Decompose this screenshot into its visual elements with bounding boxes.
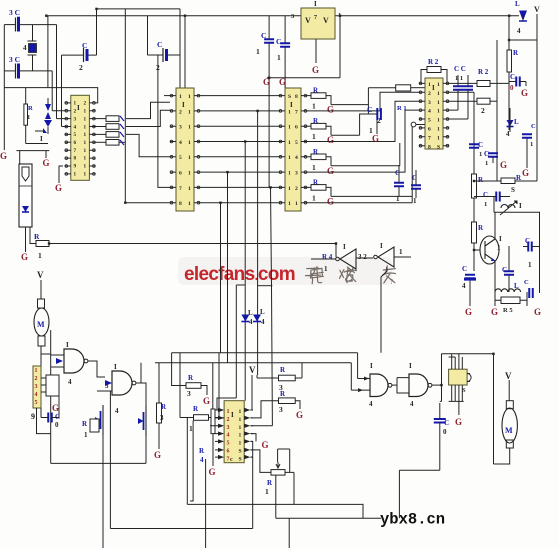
svg-text:4: 4 (200, 456, 204, 464)
diode D1 (519, 11, 527, 22)
ground G below C10 (279, 77, 286, 87)
resistor R22 label (280, 390, 286, 398)
wire R22 to ground (326, 126, 331, 135)
relay U14 value (462, 387, 466, 394)
ground G of R23 (327, 166, 334, 176)
svg-text:G: G (209, 467, 216, 477)
IC U12 designator (231, 411, 234, 419)
wire C22 leads (41, 396, 59, 418)
resistor row blue marks (120, 116, 124, 145)
wire crystal leads (32, 25, 34, 71)
resistor R22 value (279, 405, 283, 414)
inductor L1 (495, 289, 521, 292)
wire top bus right segment (335, 15, 519, 17)
capacitor C8 (411, 185, 421, 189)
capacitor C5 (163, 48, 168, 62)
svg-text:1: 1 (312, 163, 316, 172)
wire IC4 row3 to R11 (449, 100, 477, 102)
capacitor C4 (16, 64, 21, 79)
wire C16 stem (492, 157, 494, 163)
capacitor C10 label (276, 37, 281, 46)
wire IC3 to R22 (307, 125, 311, 127)
svg-text:R 2: R 2 (478, 68, 489, 76)
capacitor C22 value (55, 421, 59, 429)
IC U2 body (176, 88, 194, 211)
IC U6 right pin numbers (437, 82, 440, 150)
regulator text V (323, 16, 329, 25)
svg-text:1: 1 (479, 151, 482, 158)
svg-text:1: 1 (528, 261, 532, 269)
wire IC1 to R13 (95, 126, 106, 128)
motor M1 label (37, 320, 45, 329)
wire x97 top (97, 8, 181, 10)
svg-text:G: G (327, 135, 334, 145)
wire C18 leads (523, 246, 540, 248)
wire M1 to x50 (41, 353, 51, 355)
wire C9 vertical (268, 16, 270, 188)
IC U3 body (285, 88, 301, 211)
svg-text:I: I (314, 0, 317, 8)
resistor R22 value (312, 132, 316, 141)
ground G below IC1 left (55, 183, 62, 193)
resistor R8 label (397, 105, 407, 112)
svg-text:1234567: 1234567 (227, 409, 230, 462)
capacitor C13 label (510, 73, 515, 81)
capacitor C22 label (55, 413, 60, 421)
svg-text:C: C (82, 41, 87, 50)
wire bus IC2-IC3 y126 (200, 125, 279, 127)
wire bus y463 (51, 462, 146, 464)
wire bus IC2-IC3 y95 (200, 95, 279, 97)
buffer U7 refdes (322, 253, 333, 261)
svg-text:L: L (248, 309, 253, 317)
capacitor C12 (463, 86, 473, 90)
wire C6 left lead (368, 113, 376, 115)
wire M1 top (40, 280, 42, 299)
svg-text:1: 1 (485, 160, 488, 167)
wire IC3 to R23 (307, 156, 311, 158)
capacitor C11 C12 values (455, 75, 463, 82)
svg-text:G: G (465, 307, 472, 317)
wire IC3 row8 right (307, 202, 412, 204)
IC U6 designator (432, 84, 435, 92)
wire top bus left segment (46, 15, 301, 17)
ground G below crystal net (43, 158, 50, 168)
svg-text:I: I (182, 101, 185, 109)
ground G of R20 (209, 467, 216, 477)
diode D3 (241, 315, 249, 322)
capacitor C15 value (479, 151, 482, 158)
wire M2 top (508, 380, 510, 401)
wire U11A inputs (51, 355, 64, 367)
svg-text:R 4: R 4 (322, 253, 333, 261)
svg-text:C: C (462, 265, 467, 273)
transistor Q2 label (499, 235, 502, 243)
buffer U8 label I (380, 242, 383, 250)
wire bus IC2-IC3 y202 (200, 202, 279, 204)
IC U1 left pin numbers (74, 101, 77, 178)
wire v540 right edge (539, 212, 541, 293)
wire U13B output (432, 384, 442, 386)
wire IC1 to R12 (95, 118, 106, 120)
svg-text:I: I (499, 235, 502, 243)
svg-text:G: G (521, 88, 528, 98)
wire U11B output (136, 383, 146, 406)
wire ground bus under regulator (267, 77, 340, 79)
resistor R13 (106, 124, 119, 130)
NAND U11B input label (105, 382, 109, 390)
wire v289 bottom (288, 518, 290, 548)
resistor R12 (106, 116, 119, 122)
wire ext row1 (331, 104, 368, 106)
wire R22 to ground (295, 401, 300, 409)
resistor R16 label (503, 307, 513, 314)
wire bus y362 (155, 362, 351, 364)
wire vertical from bus x46 (47, 16, 49, 88)
wire IC3 to R21 (307, 95, 311, 97)
svg-text:7: 7 (314, 15, 317, 21)
IC U6 body (425, 78, 443, 149)
resistor R23 label (313, 148, 319, 156)
resistor R1 label (34, 232, 40, 241)
diode D2 zener (507, 120, 514, 127)
svg-text:V: V (249, 365, 256, 375)
buffer U8 input label (399, 248, 403, 256)
wire pot right down (293, 472, 295, 504)
wire R9 loop (421, 70, 427, 84)
resistor R8 value (377, 116, 381, 125)
IC U3 right pin numbers (295, 94, 298, 207)
IC U9 value 9 (31, 412, 35, 421)
svg-text:?: ? (390, 278, 393, 286)
resistor R10 label (478, 68, 489, 76)
svg-text:C: C (483, 191, 488, 199)
transistor Q3 (95, 405, 103, 435)
svg-text:I: I (343, 243, 346, 251)
voltage regulator U4 body (301, 8, 335, 39)
svg-text:4: 4 (410, 400, 414, 408)
wire h40 right (509, 39, 537, 41)
svg-text:G: G (154, 450, 161, 460)
wire U13B input bar (396, 378, 398, 394)
svg-text:1: 1 (399, 248, 403, 256)
wire v110 down (109, 391, 111, 529)
capacitor C14 (522, 134, 532, 138)
capacitor C22 (48, 413, 52, 423)
wire C23 bottom to v399 (399, 469, 439, 471)
wire drop bus x245 (244, 142, 246, 401)
svg-text:M: M (505, 426, 513, 435)
wire bus y504 (187, 503, 363, 505)
NAND U13A input arrows (358, 377, 369, 393)
ground G below photo interrupter (21, 252, 28, 262)
wire U13B out up to relay net (441, 354, 443, 385)
capacitor C4 label (9, 55, 20, 64)
svg-text:1: 1 (27, 114, 30, 121)
wire v205 bottom (205, 459, 207, 548)
svg-text:I: I (290, 101, 293, 109)
capacitor C17 (496, 192, 500, 202)
wire buffer output down diagonal (381, 267, 387, 353)
wire v359 cluster (360, 114, 369, 135)
svg-text:I: I (409, 362, 412, 370)
svg-text:2111111111: 2111111111 (84, 101, 87, 178)
resistor R24 (311, 185, 326, 191)
resistor R21 (279, 375, 296, 381)
svg-text:G: G (21, 252, 28, 262)
sensor block U10 (46, 375, 59, 396)
wire ext row2 (331, 134, 360, 136)
capacitor C23 value (443, 428, 447, 436)
capacitor C13 (516, 77, 520, 87)
resistor R12 label (513, 49, 519, 57)
svg-text:C: C (531, 123, 536, 130)
wire v363 (362, 504, 364, 518)
wire cluster horizontals (35, 111, 65, 131)
wire U11B lower input (97, 390, 112, 392)
wire strip to block (41, 378, 46, 392)
wire IC1 to R15 (95, 141, 106, 143)
NAND gate U13B (409, 374, 432, 397)
wire drop bus x220 (220, 203, 222, 353)
ground G below C6 (372, 134, 379, 144)
svg-text:c: c (230, 457, 233, 463)
resistor R18 (186, 383, 201, 389)
wire v497 (496, 40, 498, 181)
IC U1 right pins (89, 102, 95, 176)
net label V above IC6 (249, 365, 256, 375)
wire R9 right (441, 70, 447, 84)
crystal label (23, 44, 27, 52)
potentiometer R23 (271, 462, 285, 475)
IC U6 left pins (419, 82, 425, 147)
svg-text:4: 4 (369, 400, 373, 408)
svg-text:G: G (262, 440, 269, 450)
svg-text:G: G (455, 417, 462, 427)
wire v399 (398, 470, 400, 518)
svg-text:G: G (296, 410, 303, 420)
wire C17 leads (474, 196, 510, 198)
IC U12 body (224, 401, 244, 463)
buffer U7 label I (343, 243, 346, 251)
IC U2 designator (182, 101, 185, 109)
wire long vertical x474 (473, 92, 475, 271)
resistor R15 (472, 222, 477, 243)
wire C11 C12 stems (449, 75, 474, 119)
wire R19 leads (180, 353, 219, 418)
svg-text:I: I (231, 411, 234, 419)
motor M2 label (505, 426, 513, 435)
capacitor C11 (453, 86, 463, 90)
wire C20 stem (508, 246, 510, 271)
diode D4 value (261, 318, 265, 326)
diode D3 label (248, 309, 253, 317)
wire IC1 pin bottom to G (59, 166, 63, 170)
photo interrupter U5 body (19, 164, 32, 227)
wire U11A output (88, 361, 105, 377)
wire IC3 to R24 (307, 186, 311, 188)
resistor R21 (311, 93, 326, 99)
svg-text:M: M (37, 320, 45, 329)
wire regulator ground pin (315, 39, 317, 63)
NAND U13A label (370, 362, 373, 370)
wire relay top pins (449, 354, 463, 369)
wire v193 down (190, 421, 193, 501)
transformer T1 label (519, 202, 522, 210)
wire v368 cluster (367, 88, 369, 114)
capacitor C17 label (483, 191, 488, 199)
svg-text:R: R (28, 105, 33, 112)
wire y202 from x125 to IC2 (125, 202, 170, 204)
svg-text:1: 1 (484, 201, 487, 208)
resistor R24 value (160, 414, 164, 422)
NAND U13B label (409, 362, 412, 370)
capacitor C9 (264, 39, 274, 43)
motor M1 brushes (38, 299, 46, 346)
capacitor C23 label (444, 419, 449, 427)
ground G of C19 (465, 307, 472, 317)
potentiometer R23 value (265, 487, 269, 496)
wire IC6 row5 to v252 (251, 440, 253, 442)
wire v159 upper (158, 363, 160, 403)
relay U14 bump (467, 374, 471, 382)
wire R14 to IC2 pin5 (126, 134, 170, 156)
svg-text:1: 1 (497, 244, 501, 252)
wire C4 lead (4, 70, 15, 72)
wire C23 leads (440, 385, 442, 470)
wire IC3 row2 to IC4 (307, 92, 419, 111)
svg-text:2: 2 (481, 106, 485, 115)
IC U1 designator (77, 104, 80, 112)
ground G left of R16 (491, 307, 498, 317)
resistor R11 value (481, 106, 485, 115)
wire v219 (218, 353, 220, 418)
ground G of R22 (327, 135, 334, 145)
capacitor C9 value (256, 47, 260, 56)
svg-text:C: C (367, 105, 372, 114)
regulator text V (305, 16, 311, 25)
resistor R8 (396, 85, 411, 91)
svg-text:1: 1 (189, 424, 193, 433)
resistor R22 (311, 123, 326, 129)
wire v493 relay net to motor return (493, 354, 495, 464)
wire C3 right lead (20, 24, 57, 26)
capacitor C19 (464, 275, 476, 281)
svg-text:11111SS: 11111SS (239, 409, 242, 462)
ground G of R24 (327, 196, 334, 206)
watermark small subscript (390, 278, 393, 286)
wire R8 right lead (411, 87, 425, 89)
transistor Q2 value (497, 244, 501, 252)
svg-text:3 C: 3 C (9, 55, 20, 64)
svg-text:1: 1 (256, 47, 260, 56)
svg-text:G: G (327, 196, 334, 206)
resistor R20 value (200, 456, 204, 464)
wire buffer U8 input (394, 256, 411, 258)
wire relay net h353 (442, 353, 494, 355)
svg-text:G: G (52, 403, 59, 413)
svg-text:0: 0 (55, 421, 59, 429)
IC U2 left pins (170, 94, 176, 204)
svg-text:4: 4 (23, 44, 27, 52)
ground G below regulator (312, 65, 319, 75)
resistor R12 (507, 50, 512, 72)
svg-text:G: G (491, 307, 498, 317)
wire v509 from bus (508, 16, 510, 131)
svg-text:I: I (77, 104, 80, 112)
net label V motor2 (505, 371, 512, 381)
diode D2 value (506, 130, 510, 138)
capacitor C15 (469, 144, 479, 148)
ground G bottom left (154, 450, 161, 460)
svg-text:C: C (478, 141, 483, 149)
IC U6 left pin numbers (428, 82, 431, 150)
svg-text:1: 1 (530, 141, 533, 148)
capacitor C13 value (510, 84, 514, 92)
wire bus IC2-IC3 y172 (200, 171, 279, 173)
svg-text:G: G (0, 151, 7, 161)
IC U3 left pins (279, 94, 285, 204)
wire R12 to IC2 pin1 (126, 102, 170, 118)
buffer chain values (358, 253, 367, 261)
resistor R25 label (28, 105, 33, 112)
wire M2 bottom (494, 448, 510, 464)
svg-text:2: 2 (79, 63, 83, 72)
wire C19 to ground (469, 281, 471, 306)
resistor R16 (501, 297, 520, 304)
wire drop bus x227 (227, 172, 229, 363)
wire L1 R16 net (495, 275, 527, 306)
IC U9 sensor strip body (33, 366, 41, 408)
wire diode to V net (522, 16, 524, 22)
svg-text:I: I (40, 135, 43, 143)
capacitor C10 value (277, 53, 281, 62)
IC U12 right pin numbers (239, 409, 242, 462)
wire v50 down (50, 330, 52, 463)
wire C5 leads (148, 54, 181, 56)
capacitor C16 (488, 153, 498, 157)
IC U2 left pin numbers (179, 94, 182, 207)
svg-text:I: I (519, 202, 522, 210)
capacitor C17 value (484, 201, 487, 208)
wire long horizontal y243 to buffer (49, 243, 336, 245)
resistor R18 label (188, 374, 194, 382)
wire regulator output down (339, 16, 341, 78)
capacitor C18 value (528, 261, 532, 269)
wire R25 leads (16, 88, 49, 158)
IC U1 left pins (65, 102, 71, 176)
svg-text:R 1: R 1 (397, 105, 407, 112)
ground G of C14 (522, 168, 529, 178)
wire R10 to v509 (490, 82, 509, 84)
wire R21 leads (257, 363, 302, 378)
svg-text:1: 1 (312, 102, 316, 111)
resistor R25 value (27, 114, 30, 121)
resistor R21 label (313, 87, 319, 95)
svg-text:1: 1 (396, 195, 400, 203)
transistor Q4 (138, 406, 146, 436)
svg-text:3: 3 (279, 405, 283, 414)
svg-text:I: I (370, 362, 373, 370)
resistor R21 value (312, 102, 316, 111)
svg-text:I: I (66, 341, 69, 349)
IC U6 right pins (443, 82, 449, 147)
capacitor C6 value (369, 126, 373, 135)
svg-text:V: V (37, 270, 44, 280)
wire buffer U7 out left (311, 258, 336, 260)
resistor R17 label (82, 420, 88, 428)
capacitor C21 (529, 288, 533, 298)
